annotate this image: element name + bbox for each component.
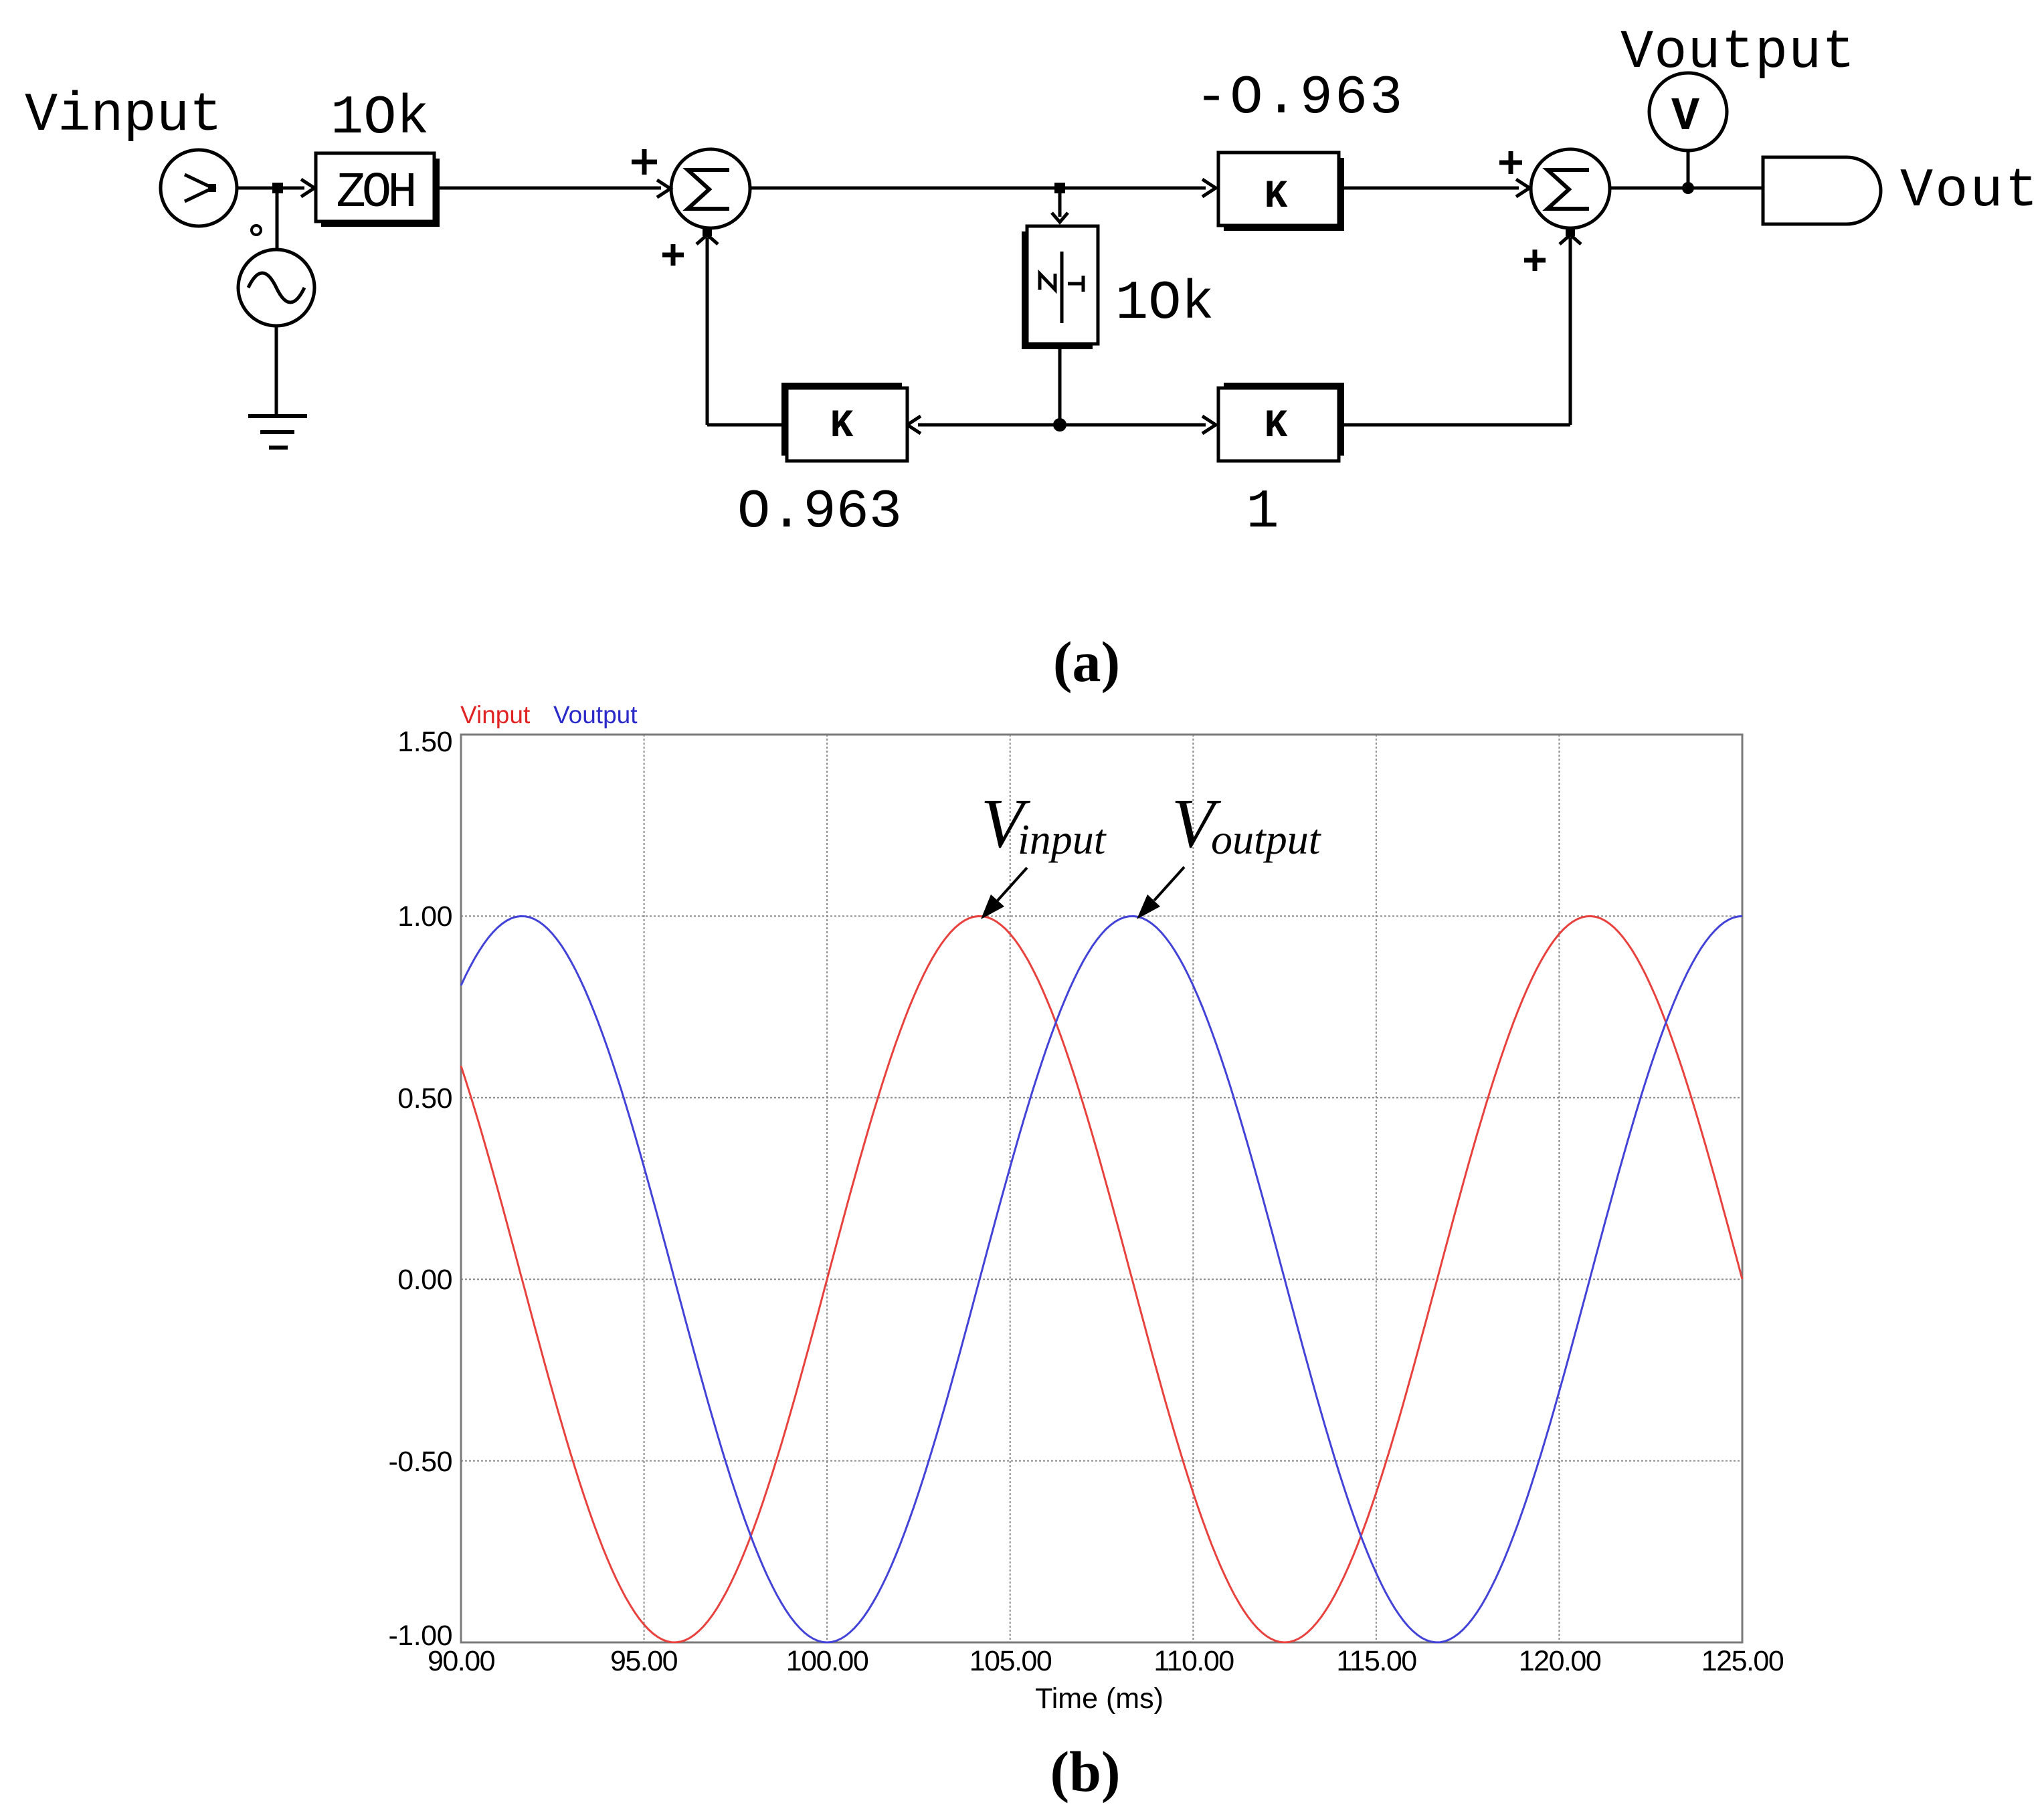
phase dot marker (252, 225, 261, 235)
curve Vinput (red) (461, 917, 1742, 1643)
y axis labels (388, 726, 452, 1652)
arrowhead into unit delay (1052, 213, 1068, 222)
summer U2 (sigma) (1531, 149, 1610, 228)
x axis labels (428, 1645, 1784, 1677)
svg-text:0.50: 0.50 (397, 1082, 452, 1115)
voltmeter probe V1 (161, 150, 237, 226)
svg-text:Vinput: Vinput (25, 84, 222, 147)
svg-text:K: K (1265, 175, 1288, 219)
svg-text:Vinput: Vinput (460, 701, 531, 729)
annotation arrow to Voutput peak (1137, 867, 1184, 919)
gain block K3 (-0.963) (1218, 153, 1344, 231)
wire ZOH to summer 1 (440, 187, 661, 190)
svg-text:125.00: 125.00 (1701, 1645, 1784, 1677)
wire K1 out to feedback riser (707, 423, 781, 427)
annotation V_input (981, 784, 1107, 863)
svg-text:1.50: 1.50 (397, 726, 452, 758)
svg-text:Voutput: Voutput (553, 701, 638, 729)
output port Vout (1763, 157, 1881, 224)
svg-text:K: K (1265, 405, 1288, 448)
svg-text:(a): (a) (1053, 630, 1120, 694)
wire bottom net to K (0.963) (918, 423, 1060, 427)
svg-text:-0.50: -0.50 (388, 1446, 452, 1478)
wire V1 to node (237, 187, 274, 190)
node junction (bottom net) (1053, 418, 1066, 432)
svg-text:ZOH: ZOH (336, 165, 413, 221)
wire K3 to summer 2 (1344, 187, 1519, 190)
svg-text:input: input (1018, 816, 1107, 863)
svg-text:Vout: Vout (1900, 160, 2040, 222)
svg-text:output: output (1211, 816, 1322, 863)
wire sine source to ground (275, 326, 278, 416)
arrowhead into ZOH (301, 179, 314, 197)
wire node down to sine source (276, 193, 279, 250)
svg-text:1: 1 (1246, 481, 1279, 543)
svg-text:(b): (b) (1050, 1739, 1120, 1804)
svg-text:90.00: 90.00 (428, 1645, 495, 1677)
arrowhead into K (0.963) (907, 416, 921, 434)
arrowhead into summer 2 (1516, 179, 1529, 197)
summer 1 bottom input pin (703, 227, 712, 236)
gain block K1 (0.963) (781, 383, 907, 461)
wire bottom net to K (1) (1060, 423, 1206, 427)
wire junction down to unit delay (1058, 193, 1062, 217)
svg-text:V: V (1671, 91, 1699, 144)
unit delay block z-1 (1022, 226, 1098, 349)
svg-text:105.00: 105.00 (969, 1645, 1052, 1677)
node junction (input net) (272, 183, 283, 193)
ground (248, 416, 307, 448)
wire feedback up into summer 1 (706, 237, 709, 425)
arrowhead into K3 (1202, 179, 1216, 197)
plus sign (summer 2 left input) (1499, 151, 1522, 174)
arrowhead into K (1) (1202, 416, 1216, 434)
sine source VSIN (238, 250, 314, 326)
summer U1 (sigma) (671, 149, 750, 228)
svg-text:95.00: 95.00 (610, 1645, 678, 1677)
node junction (output net) (1682, 182, 1694, 194)
gain block K2 (1) (1218, 383, 1344, 461)
svg-text:1Ok: 1Ok (331, 87, 430, 149)
wire unit delay to bottom net (1058, 349, 1062, 425)
svg-text:Voutput: Voutput (1620, 21, 1855, 84)
arrowhead into summer 1 (657, 180, 670, 197)
svg-text:110.00: 110.00 (1153, 1645, 1234, 1677)
svg-text:115.00: 115.00 (1336, 1645, 1416, 1677)
summer 2 bottom input pin (1566, 227, 1575, 236)
voltmeter V2 (1649, 73, 1727, 151)
svg-text:Time (ms): Time (ms) (1035, 1683, 1164, 1715)
annotation V_output (1172, 784, 1322, 863)
plot frame (461, 735, 1742, 1642)
svg-text:1Ok: 1Ok (1115, 272, 1214, 335)
ZOH block (316, 153, 440, 227)
svg-text:K: K (830, 405, 854, 448)
plus sign (summer 2 bottom input) (1524, 250, 1546, 271)
svg-text:1.00: 1.00 (397, 900, 452, 933)
wire node to ZOH (283, 187, 304, 190)
curve Voutput (blue) (461, 916, 1742, 1642)
wire summer 2 to output (1610, 187, 1763, 190)
wire K2 out to summer 2 riser (1344, 423, 1570, 427)
svg-text:100.00: 100.00 (786, 1645, 868, 1677)
svg-text:-O.963: -O.963 (1195, 67, 1404, 129)
node junction (summer1 output net) (1054, 183, 1065, 193)
voltmeter V2 wire (1687, 151, 1690, 185)
wire summer 1 to K (-0.963) (750, 187, 1206, 190)
plus sign (summer 1 bottom input) (662, 244, 684, 266)
gridlines (461, 735, 1742, 1642)
plus sign (summer 1 left input) (632, 149, 657, 175)
svg-text:0.00: 0.00 (397, 1264, 452, 1296)
svg-text:120.00: 120.00 (1519, 1645, 1601, 1677)
annotation arrow to Vinput peak (981, 868, 1027, 919)
svg-text:O.963: O.963 (737, 481, 902, 543)
